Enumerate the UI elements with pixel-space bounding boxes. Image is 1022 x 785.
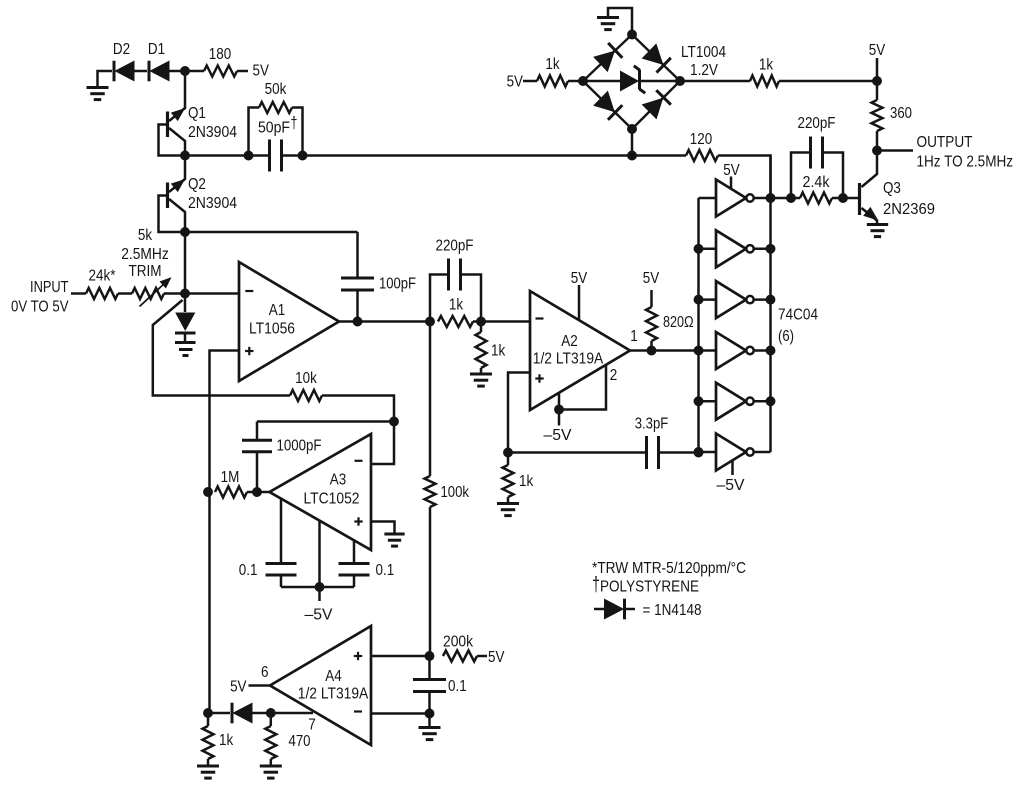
- svg-text:6: 6: [261, 664, 269, 681]
- svg-text:INPUT: INPUT: [30, 279, 69, 296]
- resistor 10k: [153, 300, 394, 422]
- wire (A1 + input): [210, 351, 240, 714]
- op-amp A4: [270, 626, 371, 745]
- resistor 1k (bridge right): [680, 57, 877, 87]
- svg-text:220pF: 220pF: [798, 115, 836, 132]
- svg-text:1k: 1k: [759, 57, 774, 74]
- note TRW: [592, 560, 746, 577]
- svg-text:120: 120: [690, 131, 712, 148]
- svg-text:1.2V: 1.2V: [690, 62, 718, 79]
- transistor Q1: [159, 71, 238, 156]
- node B (Q1 collector): [181, 151, 190, 160]
- resistor 360: [872, 81, 913, 151]
- svg-text:100k: 100k: [441, 484, 470, 501]
- 5V label (pin 6): [230, 664, 270, 696]
- svg-text:5V: 5V: [723, 162, 740, 179]
- op-amp A1: [239, 262, 339, 381]
- node C (Q2 collector): [181, 228, 190, 237]
- wire (A3 - input): [371, 422, 394, 465]
- bridge diode (bottom-right): [643, 90, 671, 118]
- capacitor 0.1 (A3 right): [339, 540, 395, 587]
- svg-text:1k: 1k: [519, 473, 534, 490]
- svg-text:0.1: 0.1: [376, 562, 395, 579]
- svg-text:†: †: [592, 574, 600, 596]
- resistor 120: [632, 131, 771, 198]
- svg-text:50pF: 50pF: [258, 120, 290, 137]
- ground (A3 +): [371, 522, 405, 547]
- resistor 1k (bridge left): [523, 56, 583, 87]
- resistor 1k (A2 +): [497, 453, 534, 516]
- capacitor 3.3pF: [508, 416, 699, 470]
- wire (-5V bus): [281, 586, 354, 589]
- svg-text:2.5MHz: 2.5MHz: [121, 246, 169, 263]
- svg-text:2N2369: 2N2369: [883, 201, 935, 218]
- transistor Q2: [159, 156, 238, 233]
- node X (5V/1k/360): [873, 77, 882, 86]
- resistor 1M: [215, 469, 270, 498]
- wire (A2 output): [630, 328, 699, 351]
- svg-text:1: 1: [630, 328, 638, 345]
- wire (A4 - input): [371, 712, 430, 715]
- svg-text:OUTPUT: OUTPUT: [917, 134, 973, 151]
- svg-text:A3: A3: [330, 472, 346, 489]
- zener LT1004 (center): [583, 66, 680, 93]
- wire (A4 + input): [371, 655, 430, 658]
- svg-text:5V: 5V: [507, 74, 524, 91]
- svg-text:–5V: –5V: [305, 607, 333, 624]
- wire (10k to 1000pF): [257, 420, 394, 423]
- svg-text:1/2 LT319A: 1/2 LT319A: [533, 351, 604, 368]
- svg-text:Q3: Q3: [883, 180, 901, 197]
- diode D1: [148, 41, 185, 81]
- inverter U1 (74C04): [699, 162, 775, 217]
- svg-text:50k: 50k: [265, 81, 288, 98]
- inverter U5 (74C04): [694, 383, 775, 420]
- wire (to A2 -): [481, 320, 530, 323]
- node T (3.3pF right): [694, 448, 703, 457]
- wire (A2 + input): [508, 373, 530, 453]
- node (bridge bottom): [628, 125, 637, 134]
- node W (2.4k right): [839, 194, 848, 203]
- svg-text:–5V: –5V: [544, 427, 572, 444]
- OUTPUT wire: [877, 149, 913, 152]
- wire (50pF to bridge): [303, 154, 633, 157]
- OUTPUT label: [917, 134, 1014, 171]
- capacitor 100pF: [185, 232, 416, 322]
- svg-text:D2: D2: [113, 41, 130, 58]
- capacitor 220pF (A2): [430, 238, 481, 322]
- svg-text:5V: 5V: [230, 679, 247, 696]
- ground (Q3 emitter): [867, 225, 888, 237]
- pin 2 A2: [559, 365, 617, 410]
- node Q (470 top): [266, 709, 275, 718]
- node D (50pF left): [244, 151, 253, 160]
- svg-text:A4: A4: [325, 668, 341, 685]
- svg-text:A1: A1: [269, 302, 285, 319]
- bridge diode (top-left): [594, 43, 622, 71]
- note diode = 1N4148: [594, 599, 702, 620]
- node U (bridge/main wire): [628, 151, 637, 160]
- svg-text:5V: 5V: [571, 270, 588, 287]
- bridge diode (bottom-left): [594, 92, 622, 120]
- node A (180/D1/Q1): [181, 67, 190, 76]
- svg-text:TRIM: TRIM: [129, 263, 162, 280]
- node E (50pF right): [298, 151, 307, 160]
- 5V label (360): [869, 42, 886, 81]
- op-amp A3: [270, 434, 372, 550]
- svg-text:*TRW MTR-5/120ppm/°C: *TRW MTR-5/120ppm/°C: [592, 560, 746, 577]
- node N (A4 +/200k): [425, 652, 434, 661]
- svg-text:2.4k: 2.4k: [803, 174, 831, 191]
- 5V label (180): [253, 63, 270, 80]
- capacitor 0.1 (A4): [413, 656, 467, 714]
- 74C04 label: [778, 307, 818, 346]
- diode D2: [113, 41, 147, 81]
- wire (pin 7): [252, 713, 316, 734]
- node (bridge top): [628, 30, 637, 39]
- resistor 100k: [425, 322, 470, 657]
- svg-text:(6): (6): [778, 328, 794, 345]
- node O (A4 -/gnd): [425, 709, 434, 718]
- node G (A1 out/100pF): [353, 317, 362, 326]
- trim pot 5k 2.5MHz: [121, 227, 185, 307]
- svg-text:LT1004: LT1004: [681, 44, 726, 61]
- svg-text:Q2: Q2: [188, 176, 206, 193]
- svg-text:820Ω: 820Ω: [663, 314, 694, 331]
- svg-text:= 1N4148: = 1N4148: [643, 602, 702, 619]
- capacitor 50pF: [249, 114, 303, 172]
- diode to ground (input clamp): [175, 294, 196, 356]
- inverter U4 (74C04): [694, 332, 775, 369]
- wire (bridge bottom to main): [631, 129, 634, 156]
- svg-text:7: 7: [308, 717, 316, 734]
- svg-text:0V TO 5V: 0V TO 5V: [11, 299, 69, 316]
- svg-text:200k: 200k: [443, 634, 474, 651]
- svg-text:1k: 1k: [545, 56, 560, 73]
- transistor Q3: [860, 151, 936, 225]
- svg-text:†: †: [291, 114, 298, 132]
- inverter U3 (74C04): [694, 281, 775, 318]
- node M (-5V bus): [315, 583, 324, 592]
- resistor 820: [643, 270, 694, 351]
- resistor 24k*: [71, 268, 132, 300]
- svg-text:5V: 5V: [643, 270, 660, 287]
- svg-text:1k: 1k: [219, 732, 234, 749]
- inverter U2 (74C04): [694, 230, 775, 267]
- svg-text:100pF: 100pF: [379, 276, 416, 293]
- -5V supply pin A2: [544, 393, 572, 444]
- node K (1M left): [204, 488, 213, 497]
- resistor 1k (series A2): [438, 297, 481, 328]
- svg-text:74C04: 74C04: [778, 307, 818, 324]
- node (bridge left): [579, 77, 588, 86]
- resistor 470: [260, 713, 311, 778]
- node (bridge right): [676, 77, 685, 86]
- svg-text:0.1: 0.1: [239, 562, 258, 579]
- svg-text:LTC1052: LTC1052: [304, 491, 360, 508]
- node I (220pF right): [477, 317, 486, 326]
- capacitor 220pF (Q3): [791, 115, 843, 198]
- svg-text:Q1: Q1: [188, 105, 206, 122]
- svg-text:2: 2: [610, 367, 618, 384]
- ground (D2 anode): [87, 71, 113, 100]
- wire (A1 output): [339, 320, 430, 323]
- svg-text:A2: A2: [561, 333, 577, 350]
- capacitor 0.1 (A3 left): [239, 499, 297, 588]
- svg-text:360: 360: [890, 105, 912, 122]
- resistor 1k (node P): [197, 713, 234, 778]
- 5V label (200k): [488, 649, 505, 666]
- svg-text:5k: 5k: [138, 227, 153, 244]
- INPUT label: [11, 279, 69, 316]
- svg-text:2N3904: 2N3904: [188, 195, 237, 212]
- wire (74C04 output rail): [769, 156, 772, 453]
- 5V label (bridge left): [507, 74, 524, 91]
- inverter U6 (74C04): [694, 434, 770, 495]
- svg-text:1000pF: 1000pF: [277, 438, 322, 455]
- node L (1M right): [253, 488, 262, 497]
- resistor 1k to ground: [470, 322, 506, 387]
- svg-text:1/2 LT319A: 1/2 LT319A: [298, 686, 369, 703]
- ground (bridge top): [597, 8, 632, 35]
- diode (A4 feedback): [208, 703, 252, 724]
- svg-text:180: 180: [209, 46, 231, 63]
- svg-text:0.1: 0.1: [448, 678, 467, 695]
- resistor 2.4k: [771, 174, 859, 204]
- note POLYSTYRENE: [592, 574, 699, 596]
- node F (summing input): [181, 289, 190, 298]
- wire (74C04 input rail): [697, 198, 700, 453]
- svg-text:D1: D1: [148, 41, 165, 58]
- svg-text:–5V: –5V: [717, 477, 745, 494]
- svg-text:POLYSTYRENE: POLYSTYRENE: [600, 579, 699, 596]
- 5V pin A2: [571, 270, 588, 320]
- op-amp A2: [530, 291, 630, 410]
- svg-text:1M: 1M: [221, 469, 240, 486]
- resistor 50k: [249, 81, 303, 156]
- wire (node B to 50pF): [185, 154, 249, 157]
- node J (A3 - junction): [390, 417, 399, 426]
- node H (220pF left): [426, 317, 435, 326]
- ground (A4 -): [419, 714, 441, 740]
- node Y (output): [873, 146, 882, 155]
- node P (diode cathode): [204, 709, 213, 718]
- resistor 200k: [443, 634, 487, 662]
- svg-text:24k*: 24k*: [89, 268, 116, 285]
- svg-text:1k: 1k: [491, 343, 506, 360]
- -5V supply pin A3: [305, 520, 333, 623]
- resistor 180: [185, 46, 248, 77]
- wire (A1 - input): [185, 292, 239, 295]
- svg-text:5V: 5V: [869, 42, 886, 59]
- svg-text:5V: 5V: [253, 63, 270, 80]
- svg-text:220pF: 220pF: [436, 238, 474, 255]
- svg-text:3.3pF: 3.3pF: [635, 416, 669, 433]
- node R (A2 out/820): [647, 346, 656, 355]
- svg-text:LT1056: LT1056: [249, 321, 295, 338]
- svg-text:10k: 10k: [295, 370, 318, 387]
- node V (2.4k left): [787, 194, 796, 203]
- LT1004 label: [681, 44, 726, 79]
- svg-text:1k: 1k: [449, 297, 464, 314]
- wire (node C to node F): [184, 232, 187, 294]
- svg-text:1Hz TO 2.5MHz: 1Hz TO 2.5MHz: [917, 154, 1014, 171]
- bridge diode (top-right): [643, 44, 671, 72]
- node S (3.3pF left): [504, 448, 513, 457]
- capacitor 1000pF: [242, 422, 322, 493]
- bridge wires (LT1004): [583, 35, 680, 130]
- svg-text:2N3904: 2N3904: [188, 124, 237, 141]
- svg-text:5V: 5V: [488, 649, 505, 666]
- svg-text:470: 470: [289, 733, 311, 750]
